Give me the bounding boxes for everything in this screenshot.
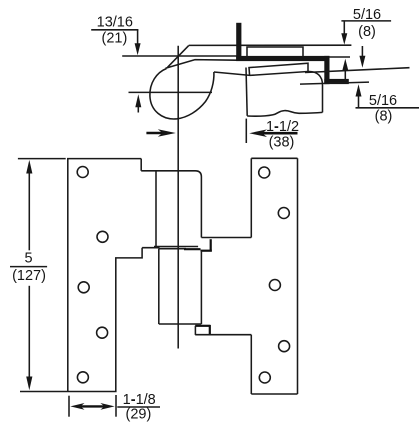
pin bearing thick marks upper	[184, 239, 212, 251]
knuckle shoulder lines	[142, 248, 186, 249]
pivot datum line L2	[129, 91, 213, 93]
svg-text:(8): (8)	[358, 24, 376, 40]
right leaf plate (front view)	[251, 158, 297, 394]
left leaf plate (front view)	[68, 159, 142, 392]
dimension 1-1/8 (29)	[69, 392, 160, 422]
svg-text:(21): (21)	[102, 31, 128, 47]
lower knuckle (front view)	[159, 249, 202, 324]
right leaf arm	[195, 238, 251, 335]
hinge leaf front slant S1	[168, 46, 189, 68]
frame stop thick section	[236, 23, 349, 84]
dimension 13/16 down arrow	[135, 30, 141, 55]
screw holes right plate	[259, 167, 290, 383]
5/16 top up arrow	[342, 59, 348, 81]
dimension 5 (127)	[10, 159, 67, 392]
pin bearing thick marks lower	[195, 325, 210, 335]
frame face line L1	[122, 55, 240, 57]
door break squiggle	[247, 111, 322, 117]
svg-text:(29): (29)	[126, 406, 152, 422]
hinge leaf lower slant S2	[166, 60, 237, 69]
svg-text:(127): (127)	[12, 268, 46, 284]
hinge leaf top edge (section)	[189, 44, 352, 46]
dimension 5/16 (8) top label	[341, 7, 391, 40]
svg-text:13/16: 13/16	[97, 15, 133, 31]
pivot centerline	[177, 46, 179, 349]
svg-text:5: 5	[25, 250, 33, 266]
5/16 top down arrow	[341, 21, 347, 45]
screw holes left plate	[77, 167, 108, 383]
olive knuckle teardrop (section)	[150, 69, 214, 119]
reference line B (leaf bottom extended)	[300, 82, 369, 84]
svg-text:(8): (8)	[375, 108, 393, 124]
svg-text:5/16: 5/16	[369, 93, 397, 109]
1-1/2 right-pointing arrow at centerline	[146, 129, 175, 137]
left plate top step	[140, 159, 142, 171]
upper knuckle (front view)	[141, 171, 201, 247]
dimension 13/16 (21) label	[91, 15, 138, 47]
door hinge face line	[246, 68, 247, 116]
dimension 1-1/2 (38)	[246, 119, 299, 151]
reference stub at frame stop	[330, 56, 351, 58]
5/16 bottom down arrow	[359, 46, 365, 68]
door top edge (section)	[214, 71, 323, 112]
reference line R (door top extended)	[305, 68, 410, 73]
dimension 13/16 up arrow	[135, 94, 141, 112]
frame leaf strip on soffit	[247, 47, 303, 57]
dimension 5/16 (8) bottom label	[356, 93, 420, 125]
leaf mortised in door (section)	[249, 63, 308, 75]
5/16 bottom up arrow	[356, 84, 362, 108]
svg-text:(38): (38)	[269, 134, 295, 150]
